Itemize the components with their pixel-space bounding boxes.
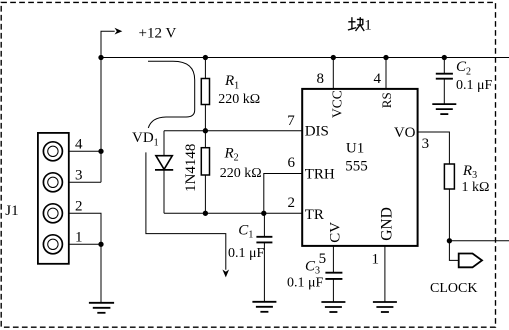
svg-text:U1: U1 xyxy=(346,140,364,156)
+12V power bus wire xyxy=(101,57,509,59)
node: pin1 junction xyxy=(98,242,103,247)
svg-text:1: 1 xyxy=(372,252,380,268)
J1 contact 4 xyxy=(43,142,62,161)
capacitor C3 xyxy=(325,272,342,274)
svg-text:0.1 μF: 0.1 μF xyxy=(456,78,493,93)
pin 5 CV xyxy=(332,246,334,272)
svg-text:4: 4 xyxy=(374,71,382,87)
pin 1 GND xyxy=(384,246,386,302)
ground (C3) xyxy=(321,302,345,312)
svg-text:VD1: VD1 xyxy=(132,130,159,148)
svg-text:R1: R1 xyxy=(224,73,239,91)
wire: J1 pin 4 to +12V rail xyxy=(69,150,101,152)
wire: curved leader around R1 (VD1 hook) xyxy=(148,61,195,128)
svg-text:+12 V: +12 V xyxy=(139,25,177,41)
resistor R1 xyxy=(204,58,206,79)
svg-text:0.1 μF: 0.1 μF xyxy=(228,246,265,261)
node: bus/left rail junction xyxy=(98,55,103,60)
ground (555 pin1) xyxy=(373,302,397,312)
wire: clock out to frame edge xyxy=(449,240,509,242)
svg-text:3: 3 xyxy=(75,167,83,183)
label 块1 xyxy=(348,17,364,31)
wire: TRH net (pin 6) xyxy=(264,174,302,214)
node: TRH / TR junction xyxy=(261,211,266,216)
connector J1 body xyxy=(38,133,69,264)
svg-text:C2: C2 xyxy=(456,59,471,77)
wire: left +12V rail down to J1 pins 4,3 xyxy=(100,31,102,182)
svg-text:1: 1 xyxy=(75,229,83,245)
node: R1 top on bus xyxy=(203,55,208,60)
ground (C1) xyxy=(252,302,276,312)
pin 8 VCC xyxy=(332,58,334,89)
svg-text:4: 4 xyxy=(75,136,83,152)
wire: dangling arrow from VD1 label area xyxy=(146,152,226,269)
J1 contact 2 xyxy=(43,204,62,223)
pin 4 RS xyxy=(385,58,387,89)
svg-text:J1: J1 xyxy=(5,203,18,219)
+12V arrow and label xyxy=(101,31,115,57)
svg-text:1: 1 xyxy=(364,18,372,34)
diode VD1 xyxy=(156,156,172,170)
svg-text:7: 7 xyxy=(287,113,295,129)
ground (C2) xyxy=(432,104,456,114)
svg-text:1 kΩ: 1 kΩ xyxy=(462,180,490,195)
resistor R2 xyxy=(204,131,206,148)
node: R2 bottom / TR junction xyxy=(203,211,208,216)
svg-text:8: 8 xyxy=(317,71,325,87)
ground (J1) xyxy=(89,303,114,313)
svg-text:C1: C1 xyxy=(238,222,253,240)
svg-text:CV: CV xyxy=(328,222,344,243)
wire: diode branch vertical xyxy=(163,131,165,214)
capacitor C2 xyxy=(442,55,447,60)
svg-text:VO: VO xyxy=(394,125,416,141)
svg-text:6: 6 xyxy=(288,155,296,171)
svg-text:2: 2 xyxy=(75,198,83,214)
wire: J1 pin 3 to +12V rail xyxy=(69,181,101,183)
svg-text:220 kΩ: 220 kΩ xyxy=(220,166,262,181)
node: R3 / clock junction xyxy=(447,238,452,243)
op-amp/timer U1 555 body xyxy=(302,89,417,246)
capacitor C1 xyxy=(263,213,265,236)
wire: stub to CLOCK tag xyxy=(449,241,458,261)
wire: J1 pin 1 to ground rail xyxy=(69,243,101,245)
wire: TR net (pin 2) xyxy=(164,212,302,214)
svg-text:3: 3 xyxy=(422,136,430,152)
J1 contact 1 xyxy=(43,235,62,254)
wire: J1 pin 2 down to ground rail xyxy=(69,213,101,302)
svg-text:TR: TR xyxy=(305,207,324,223)
resistor R3 xyxy=(444,164,454,189)
node: R1 bottom / DIS junction xyxy=(203,128,208,133)
svg-text:R3: R3 xyxy=(462,163,477,181)
svg-text:CLOCK: CLOCK xyxy=(430,281,477,296)
wire: VO (pin 3) to R3 xyxy=(418,132,449,164)
svg-text:VCC: VCC xyxy=(330,90,345,118)
svg-text:TRH: TRH xyxy=(305,167,335,183)
svg-text:RS: RS xyxy=(379,92,394,108)
node: pin4 junction xyxy=(98,149,103,154)
svg-text:1N4148: 1N4148 xyxy=(183,144,199,192)
svg-text:2: 2 xyxy=(288,195,296,211)
svg-text:220 kΩ: 220 kΩ xyxy=(218,92,260,107)
svg-text:GND: GND xyxy=(379,207,396,241)
CLOCK output tag xyxy=(459,254,482,268)
svg-text:R2: R2 xyxy=(224,145,239,163)
J1 contact 3 xyxy=(43,173,62,192)
wire: DIS net (pin 7) xyxy=(164,130,302,132)
svg-text:555: 555 xyxy=(345,159,368,175)
svg-text:0.1 μF: 0.1 μF xyxy=(287,275,324,290)
svg-text:DIS: DIS xyxy=(305,124,329,140)
